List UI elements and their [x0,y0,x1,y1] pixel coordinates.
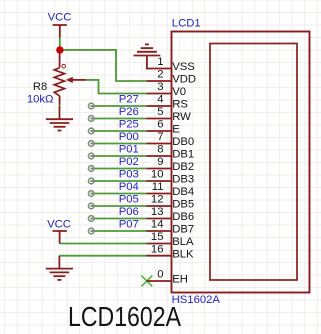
svg-text:VCC: VCC [47,218,71,230]
svg-text:EH: EH [172,274,188,286]
svg-text:DB6: DB6 [172,211,194,223]
wire-end pad P00 [88,141,94,147]
wire net P01 to pin 8 [90,155,146,157]
svg-text:DB1: DB1 [172,149,194,161]
pin 7 DB0 [147,143,172,145]
svg-text:11: 11 [152,181,164,193]
wire R8 bottom to ground [59,105,61,108]
wire-end pad P04 [88,191,94,197]
wire-end pad P05 [88,203,94,209]
pin 4 RS [147,105,172,107]
wire net P25 to pin 6 [90,130,146,132]
svg-text:6: 6 [157,119,163,131]
svg-text:P02: P02 [119,156,139,168]
pin 14 DB7 [147,230,172,232]
pin 5 RW [147,118,172,120]
wire net P27 to pin 4 [90,105,146,107]
svg-text:DB2: DB2 [172,161,194,173]
svg-text:V0: V0 [172,86,186,98]
svg-text:2: 2 [157,69,163,81]
svg-text:15: 15 [151,231,164,243]
wire ground to pin16 BLK [59,255,146,257]
wire R8 wiper to pin3 V0 [86,80,147,94]
no-connect X at pin 0 EH [141,276,152,287]
wire net P05 to pin 12 [90,205,146,207]
junction node VCC/R8 [56,46,63,53]
VCC power symbol (top) [53,25,67,38]
svg-text:RW: RW [172,111,191,123]
pin 2 VDD [147,80,172,82]
svg-text:0: 0 [157,269,163,281]
wire-end pad P07 [88,228,94,234]
LCD screen inner rectangle [210,44,297,281]
wire net P00 to pin 7 [90,143,146,145]
pin 16 BLK [147,255,172,257]
wire-end pad P27 [88,103,94,109]
svg-text:LCD1602A: LCD1602A [68,301,181,332]
svg-text:P25: P25 [119,119,139,131]
wire net P06 to pin 13 [90,218,146,220]
svg-text:DB0: DB0 [172,136,194,148]
svg-text:BLK: BLK [172,248,194,260]
wire joint at pin1 ground [146,68,148,70]
ground at pin1 VSS (inverted) [146,56,148,69]
svg-text:DB5: DB5 [172,199,194,211]
wire-end pad P25 [88,128,94,134]
svg-text:1: 1 [157,56,163,68]
svg-text:12: 12 [151,194,164,206]
wire net P03 to pin 10 [90,180,146,182]
wire net P26 to pin 5 [90,118,146,120]
svg-text:P00: P00 [119,131,139,143]
LCD1 component body outline [172,32,310,293]
wire-end pad P02 [88,166,94,172]
wire-end pad P06 [88,216,94,222]
svg-text:DB4: DB4 [172,186,194,198]
ground below R8 [59,106,61,119]
svg-text:16: 16 [151,243,164,255]
pin 13 DB6 [147,218,172,220]
resistor R8 potentiometer [59,50,61,68]
svg-text:DB7: DB7 [172,224,194,236]
pin 6 E [147,130,172,132]
svg-text:14: 14 [151,219,164,231]
wire junction to pin2 VDD [60,50,147,81]
svg-text:P06: P06 [119,206,139,218]
svg-text:P01: P01 [119,144,139,156]
pin 8 DB1 [147,155,172,157]
pin 11 DB4 [147,193,172,195]
wire VCC to pin15 BLA [60,243,147,245]
ground bottom left (pin16 BLK) [58,256,60,269]
wire VCC to R8 top [59,37,61,53]
pin 1 VSS [147,68,172,70]
svg-text:VSS: VSS [172,61,195,73]
wire net P02 to pin 9 [90,168,146,170]
svg-text:R8: R8 [33,81,47,93]
svg-text:10kΩ: 10kΩ [27,94,54,106]
pin 12 DB5 [147,205,172,207]
svg-text:13: 13 [151,206,164,218]
svg-text:8: 8 [157,144,163,156]
pin 15 BLA [147,243,172,245]
svg-text:10: 10 [151,169,164,181]
svg-text:RS: RS [172,99,188,111]
svg-text:7: 7 [157,131,163,143]
svg-text:P04: P04 [119,181,139,193]
svg-text:9: 9 [157,156,163,168]
svg-text:E: E [172,124,180,136]
svg-text:P26: P26 [119,106,139,118]
svg-text:P05: P05 [119,194,139,206]
wire-end pad P03 [88,178,94,184]
VCC power symbol (bottom left) [53,231,67,244]
svg-text:4: 4 [157,94,163,106]
wire-end pad P26 [88,116,94,122]
svg-text:LCD1: LCD1 [172,17,201,29]
pin 3 V0 [147,93,172,95]
svg-text:3: 3 [157,81,163,93]
svg-text:DB3: DB3 [172,174,194,186]
R8 circle marker [62,64,66,68]
wire-end pad P01 [88,153,94,159]
svg-text:BLA: BLA [172,236,194,248]
svg-text:5: 5 [157,106,163,118]
pin 10 DB3 [147,180,172,182]
svg-text:P03: P03 [119,169,139,181]
svg-text:VCC: VCC [48,11,72,23]
pin 9 DB2 [147,168,172,170]
R8 wiper arrow [72,79,86,81]
wire net P07 to pin 14 [90,230,146,232]
pin 0 EH [147,280,172,282]
svg-text:VDD: VDD [172,74,196,86]
svg-text:P27: P27 [119,94,139,106]
svg-text:P07: P07 [119,219,139,231]
wire net P04 to pin 11 [90,193,146,195]
